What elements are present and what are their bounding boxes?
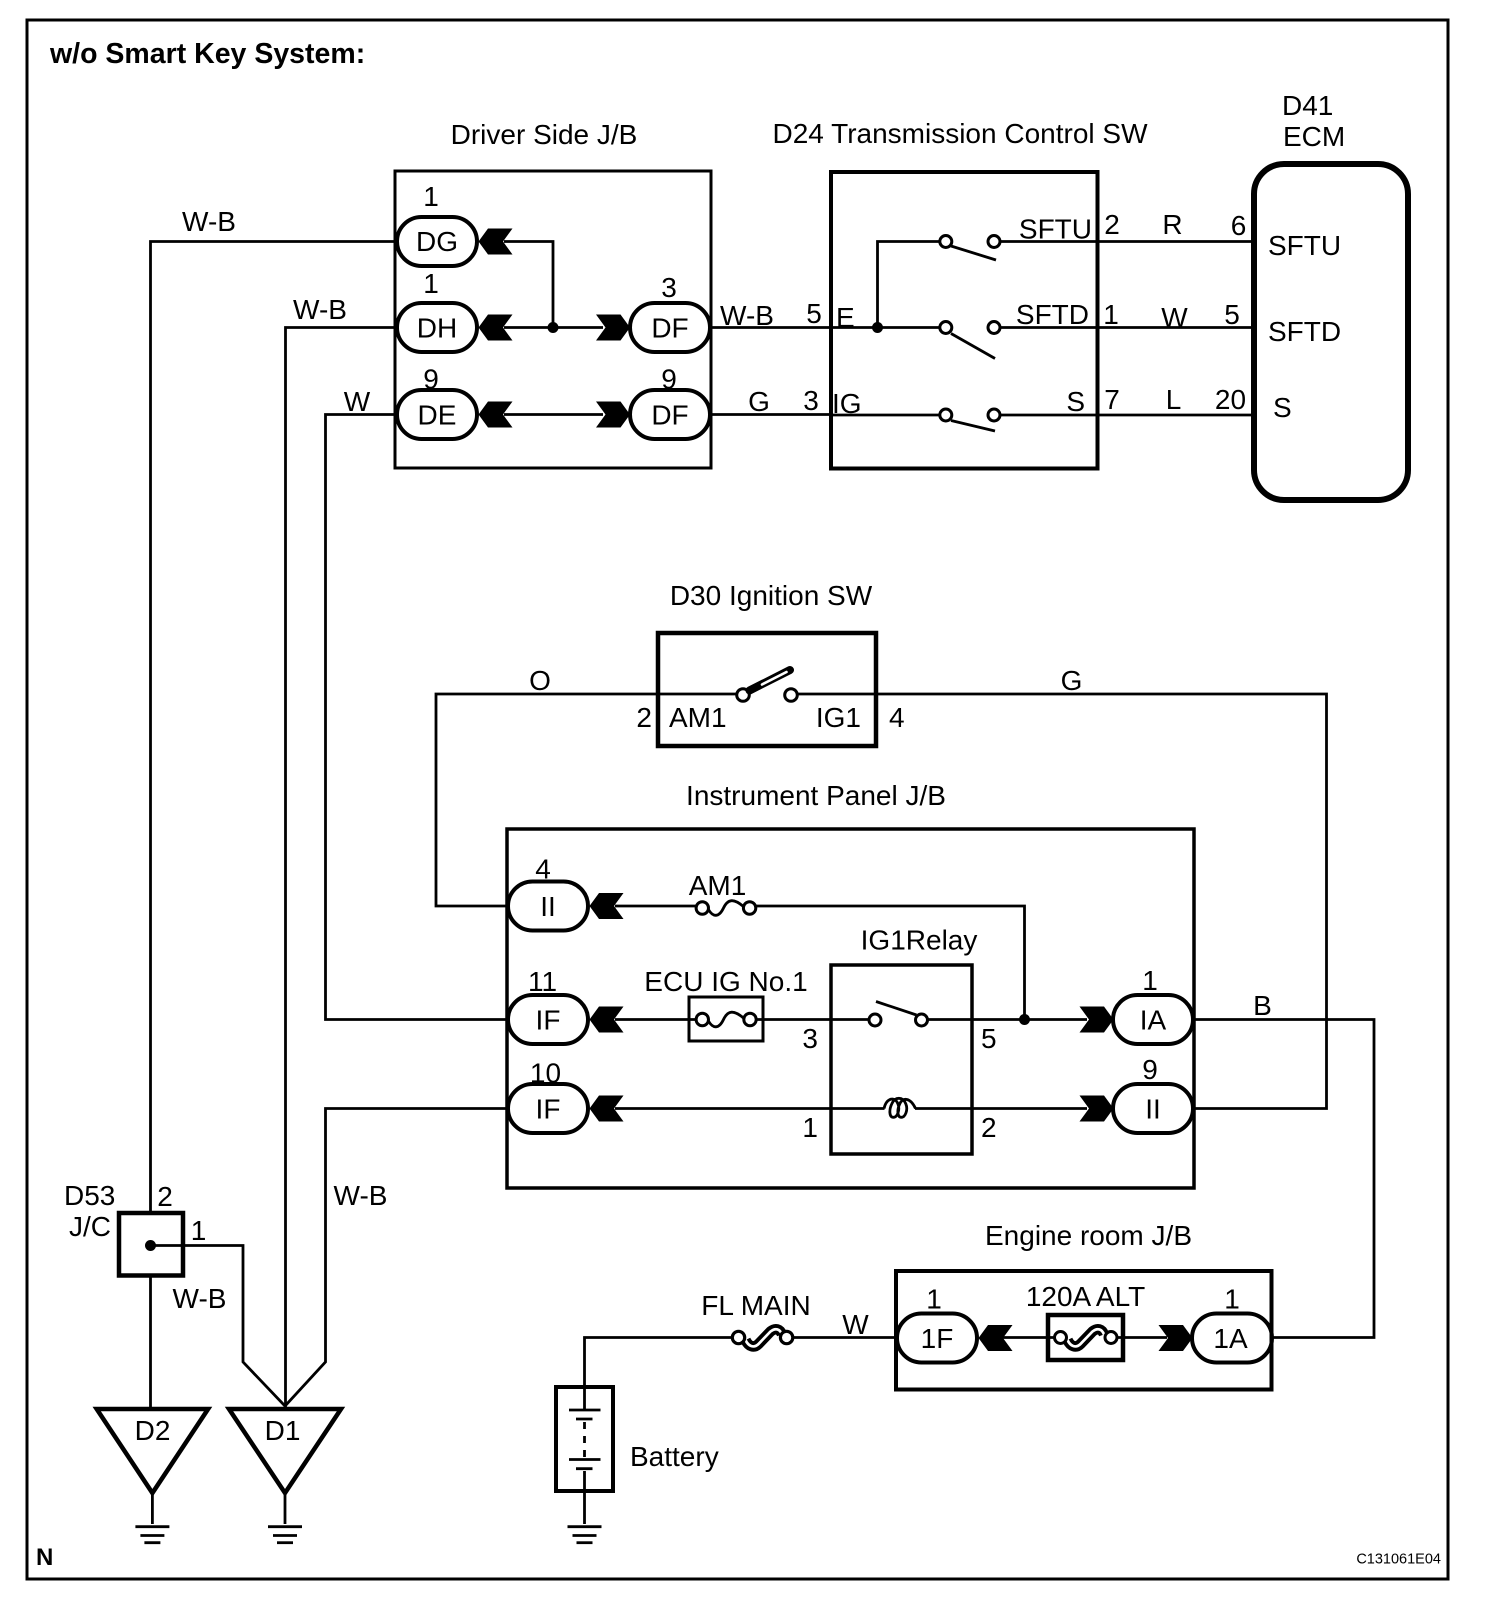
wire D2 to ground bbox=[151, 1493, 154, 1524]
wire W-B to DG bbox=[151, 242, 398, 1214]
connector IA pin 1 bbox=[1113, 995, 1193, 1044]
wire W to DE bbox=[326, 415, 508, 1020]
connector IF pin 10 bbox=[508, 1084, 588, 1133]
arrow into IA bbox=[1080, 1007, 1114, 1033]
svg-text:SFTD: SFTD bbox=[1268, 316, 1341, 347]
svg-text:2: 2 bbox=[636, 702, 652, 733]
svg-text:1: 1 bbox=[423, 268, 439, 299]
connector DG bbox=[397, 217, 477, 266]
svg-text:9: 9 bbox=[661, 364, 677, 395]
fuse 120A ALT box bbox=[1048, 1315, 1123, 1360]
wire DF9 to D24 pin 3 bbox=[711, 413, 832, 416]
connector II pin 4 bbox=[508, 882, 588, 931]
arrow into DE bbox=[479, 402, 513, 428]
svg-text:IA: IA bbox=[1140, 1005, 1167, 1036]
svg-text:W: W bbox=[842, 1309, 869, 1340]
svg-text:AM1: AM1 bbox=[689, 870, 747, 901]
junction connector D53 J/C box bbox=[119, 1213, 183, 1276]
IG1 relay box bbox=[831, 965, 972, 1154]
wire IF11 arrow to fuse box bbox=[615, 1018, 702, 1021]
svg-text:2: 2 bbox=[1104, 209, 1120, 240]
svg-text:W-B: W-B bbox=[173, 1283, 227, 1314]
svg-text:C131061E04: C131061E04 bbox=[1356, 1552, 1441, 1568]
wire E up to SFTU switch bbox=[878, 242, 941, 328]
wire G from D30 to right corner bbox=[797, 694, 1327, 1109]
svg-text:2: 2 bbox=[157, 1181, 173, 1212]
connector 1A bbox=[1192, 1314, 1272, 1363]
svg-text:120A ALT: 120A ALT bbox=[1026, 1281, 1145, 1312]
wire relay pin3 to switch bbox=[831, 1018, 870, 1021]
svg-text:Instrument Panel J/B: Instrument Panel J/B bbox=[686, 780, 946, 811]
arrow into DF9 bbox=[596, 402, 630, 428]
ground (D1) bbox=[268, 1525, 302, 1528]
junction dot DH row bbox=[548, 322, 559, 333]
svg-text:D24 Transmission Control SW: D24 Transmission Control SW bbox=[772, 118, 1148, 149]
svg-text:IF: IF bbox=[536, 1005, 561, 1036]
svg-text:II: II bbox=[1145, 1094, 1161, 1125]
svg-text:w/o Smart Key System:: w/o Smart Key System: bbox=[49, 38, 365, 70]
svg-text:20: 20 bbox=[1215, 384, 1246, 415]
svg-text:4: 4 bbox=[535, 854, 551, 885]
svg-text:1: 1 bbox=[1224, 1284, 1240, 1315]
wire IF10 to relay pin 1 bbox=[615, 1107, 831, 1110]
svg-text:SFTD: SFTD bbox=[1016, 299, 1089, 330]
arrow into II4 bbox=[590, 893, 624, 919]
Driver Side J/B box bbox=[395, 171, 711, 468]
svg-text:S: S bbox=[1273, 392, 1292, 423]
svg-text:J/C: J/C bbox=[69, 1211, 111, 1242]
wire D1 to ground bbox=[284, 1493, 287, 1524]
svg-text:10: 10 bbox=[530, 1058, 561, 1089]
svg-text:O: O bbox=[529, 665, 551, 696]
ground (D2) bbox=[135, 1525, 169, 1528]
svg-text:5: 5 bbox=[1224, 299, 1240, 330]
wire relay coil to II9 bbox=[831, 1107, 885, 1110]
connector II pin 9 bbox=[1113, 1084, 1193, 1133]
svg-text:ECU IG No.1: ECU IG No.1 bbox=[644, 966, 807, 997]
wire DF3 to D24 pin 5 bbox=[711, 326, 832, 329]
svg-text:2: 2 bbox=[981, 1112, 997, 1143]
svg-text:N: N bbox=[36, 1544, 53, 1571]
svg-text:5: 5 bbox=[806, 298, 822, 329]
svg-text:IG1: IG1 bbox=[816, 702, 861, 733]
wire S to box edge bbox=[1000, 414, 1098, 417]
svg-text:DH: DH bbox=[417, 313, 457, 344]
wire O from corner to D30 bbox=[436, 694, 737, 906]
svg-text:SFTU: SFTU bbox=[1268, 230, 1341, 261]
svg-text:6: 6 bbox=[1231, 210, 1247, 241]
connector DE bbox=[397, 390, 477, 439]
svg-text:DF: DF bbox=[651, 313, 688, 344]
svg-text:DF: DF bbox=[651, 400, 688, 431]
svg-text:W-B: W-B bbox=[720, 300, 774, 331]
wire DE arrow to DF9 arrow bbox=[504, 413, 603, 416]
svg-text:IG1Relay: IG1Relay bbox=[861, 925, 978, 956]
junction dot J/C bbox=[145, 1240, 156, 1251]
switch SFTU bbox=[940, 236, 952, 248]
wire II4 arrow to fuse bbox=[615, 905, 702, 908]
Instrument Panel J/B box bbox=[507, 829, 1194, 1188]
wire DG arrow to corner bbox=[504, 242, 553, 328]
connector DF pin 3 bbox=[630, 303, 710, 352]
ignition switch AM1-IG1 bbox=[737, 689, 750, 702]
svg-text:11: 11 bbox=[528, 966, 557, 997]
svg-text:G: G bbox=[1061, 665, 1083, 696]
arrow into DF3 bbox=[596, 315, 630, 341]
svg-text:W-B: W-B bbox=[293, 294, 347, 325]
relay switch bbox=[876, 1002, 917, 1016]
svg-text:9: 9 bbox=[1142, 1054, 1158, 1085]
wire SFTU to ECM bbox=[1098, 240, 1255, 243]
wire IF10 left down to D1 bbox=[285, 1109, 507, 1407]
svg-text:IF: IF bbox=[536, 1094, 561, 1125]
wire IA to right corner down to 1A bbox=[1194, 1020, 1374, 1338]
ground shield D2 bbox=[97, 1409, 208, 1493]
svg-text:9: 9 bbox=[423, 364, 439, 395]
connector DH bbox=[397, 303, 477, 352]
svg-text:W-B: W-B bbox=[334, 1180, 388, 1211]
svg-text:FL MAIN: FL MAIN bbox=[701, 1290, 810, 1321]
svg-text:DG: DG bbox=[416, 226, 458, 257]
svg-text:Driver Side J/B: Driver Side J/B bbox=[451, 119, 638, 150]
wire W-B to DH bbox=[286, 328, 398, 1410]
switch S bbox=[940, 409, 952, 421]
connector IF pin 11 bbox=[508, 995, 588, 1044]
wire IG row into switch bbox=[831, 414, 940, 417]
arrow into DG bbox=[479, 229, 513, 255]
connector DF pin 9 bbox=[630, 390, 710, 439]
svg-text:1F: 1F bbox=[921, 1323, 954, 1354]
switch SFTD bbox=[940, 322, 952, 334]
svg-text:1A: 1A bbox=[1213, 1323, 1248, 1354]
svg-text:3: 3 bbox=[661, 272, 677, 303]
wire SFTD to box edge bbox=[1000, 326, 1098, 329]
svg-text:1: 1 bbox=[423, 181, 439, 212]
svg-text:W-B: W-B bbox=[182, 206, 236, 237]
ECM U D41 box bbox=[1254, 164, 1408, 500]
wire SFTD to ECM bbox=[1098, 326, 1255, 329]
svg-text:DE: DE bbox=[418, 400, 457, 431]
wire S to ECM bbox=[1098, 414, 1255, 417]
junction dot at AM1/IA bbox=[1019, 1014, 1030, 1025]
svg-text:3: 3 bbox=[803, 385, 819, 416]
relay coil bbox=[884, 1098, 916, 1117]
wire battery to 1F bbox=[585, 1338, 740, 1388]
D24 box bbox=[831, 172, 1098, 469]
svg-text:1: 1 bbox=[191, 1215, 207, 1246]
svg-text:D2: D2 bbox=[135, 1415, 171, 1446]
arrow into II9 bbox=[1080, 1096, 1114, 1122]
svg-text:D1: D1 bbox=[265, 1415, 301, 1446]
ground (battery) bbox=[568, 1525, 602, 1528]
svg-text:1: 1 bbox=[802, 1112, 818, 1143]
svg-text:AM1: AM1 bbox=[669, 702, 727, 733]
svg-text:ECM: ECM bbox=[1283, 121, 1345, 152]
svg-text:7: 7 bbox=[1104, 384, 1120, 415]
svg-text:Battery: Battery bbox=[630, 1441, 719, 1472]
svg-text:1: 1 bbox=[926, 1284, 942, 1315]
svg-text:Engine room J/B: Engine room J/B bbox=[985, 1220, 1192, 1251]
svg-text:W: W bbox=[1161, 302, 1188, 333]
wire fuse box to relay pin 3 bbox=[750, 1018, 831, 1021]
wire DH arrow to DF3 arrow bbox=[504, 326, 603, 329]
arrow into DH bbox=[479, 315, 513, 341]
svg-text:W: W bbox=[344, 386, 371, 417]
arrow into 1F bbox=[979, 1325, 1013, 1351]
svg-text:G: G bbox=[748, 386, 770, 417]
wire E to SFTD switch bbox=[831, 326, 940, 329]
D30 box bbox=[658, 633, 876, 746]
wire J/C through to D2 bbox=[149, 1276, 152, 1410]
wire 1F arrow to ALT box bbox=[1002, 1336, 1061, 1339]
arrow into IF10 bbox=[590, 1096, 624, 1122]
svg-text:5: 5 bbox=[981, 1023, 997, 1054]
arrow into IF11 bbox=[590, 1007, 624, 1033]
D24 node E junction dot bbox=[872, 322, 883, 333]
svg-text:D53: D53 bbox=[64, 1180, 115, 1211]
svg-text:R: R bbox=[1162, 209, 1182, 240]
svg-text:D41: D41 bbox=[1282, 90, 1333, 121]
svg-text:II: II bbox=[540, 891, 556, 922]
svg-text:SFTU: SFTU bbox=[1019, 214, 1092, 245]
wire AM1 fuse to corner down to IA row bbox=[750, 906, 1025, 1020]
svg-text:1: 1 bbox=[1142, 965, 1158, 996]
ground shield D1 bbox=[229, 1409, 341, 1493]
svg-text:B: B bbox=[1253, 990, 1272, 1021]
arrow into 1A bbox=[1159, 1325, 1193, 1351]
wire SFTU to box edge bbox=[1000, 240, 1098, 243]
svg-text:1: 1 bbox=[1103, 299, 1119, 330]
connector 1F bbox=[897, 1314, 977, 1363]
svg-text:3: 3 bbox=[802, 1023, 818, 1054]
svg-text:D30 Ignition SW: D30 Ignition SW bbox=[670, 580, 873, 611]
svg-text:4: 4 bbox=[889, 702, 905, 733]
wire ALT box to 1A arrow bbox=[1111, 1336, 1167, 1339]
svg-text:L: L bbox=[1166, 384, 1182, 415]
fusible link FL MAIN bbox=[746, 1329, 783, 1346]
wire relay 5 to IA bbox=[972, 1018, 1087, 1021]
battery bbox=[556, 1387, 613, 1491]
svg-text:S: S bbox=[1066, 386, 1085, 417]
wire J/C pin1 to D1 bbox=[151, 1246, 286, 1407]
Engine room J/B box bbox=[896, 1271, 1272, 1390]
fuse ECU IG No.1 box bbox=[689, 997, 763, 1041]
